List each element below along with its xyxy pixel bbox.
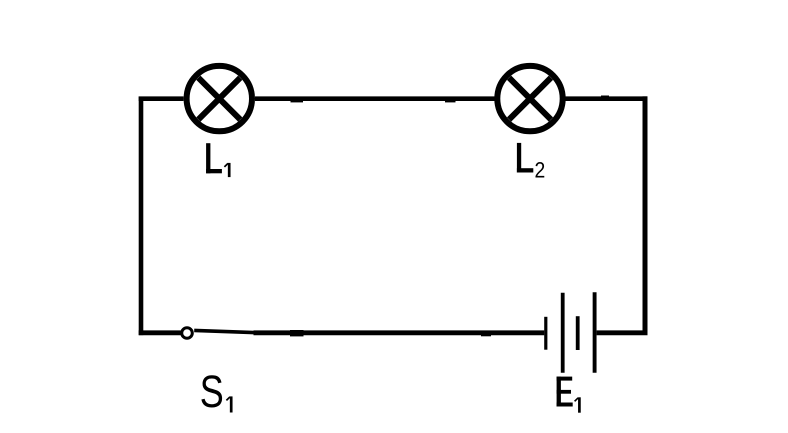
svg-text:2: 2 [535,158,546,182]
wire: top middle segment (L1 to L2) [255,96,495,101]
svg-text:S: S [200,366,224,417]
battery E1 plate 1 (short, negative) [544,317,547,350]
wire: bottom middle segment (switch to battery) [254,330,545,335]
wire: left vertical [139,97,144,336]
lamp L1 [187,66,252,131]
battery E1 plate 4 (long, positive) [593,292,597,373]
wire joint nub [445,97,456,103]
label E1 [557,377,580,413]
lamp L2 [497,66,562,131]
wire joint nub [291,97,304,103]
switch S1 terminal circle [182,328,193,339]
wire: top-left segment (left corner to lamp L1) [139,96,184,101]
wire joint nub [601,96,609,102]
wire: bottom-left segment (left corner to switch) [139,330,181,335]
wire joint nub [481,332,491,337]
label L2 [517,143,545,183]
wire: top-right segment (L2 to right corner) [565,96,647,101]
wire: right vertical [643,96,648,335]
wire joint nub [290,330,304,336]
battery E1 plate 2 (long, positive) [561,293,565,373]
label L1 [206,143,229,177]
switch S1 blade [194,330,254,332]
wire: bottom-right segment (battery to right corner) [597,330,648,335]
battery E1 plate 3 (short, negative) [576,316,580,350]
label S1 [200,366,231,417]
